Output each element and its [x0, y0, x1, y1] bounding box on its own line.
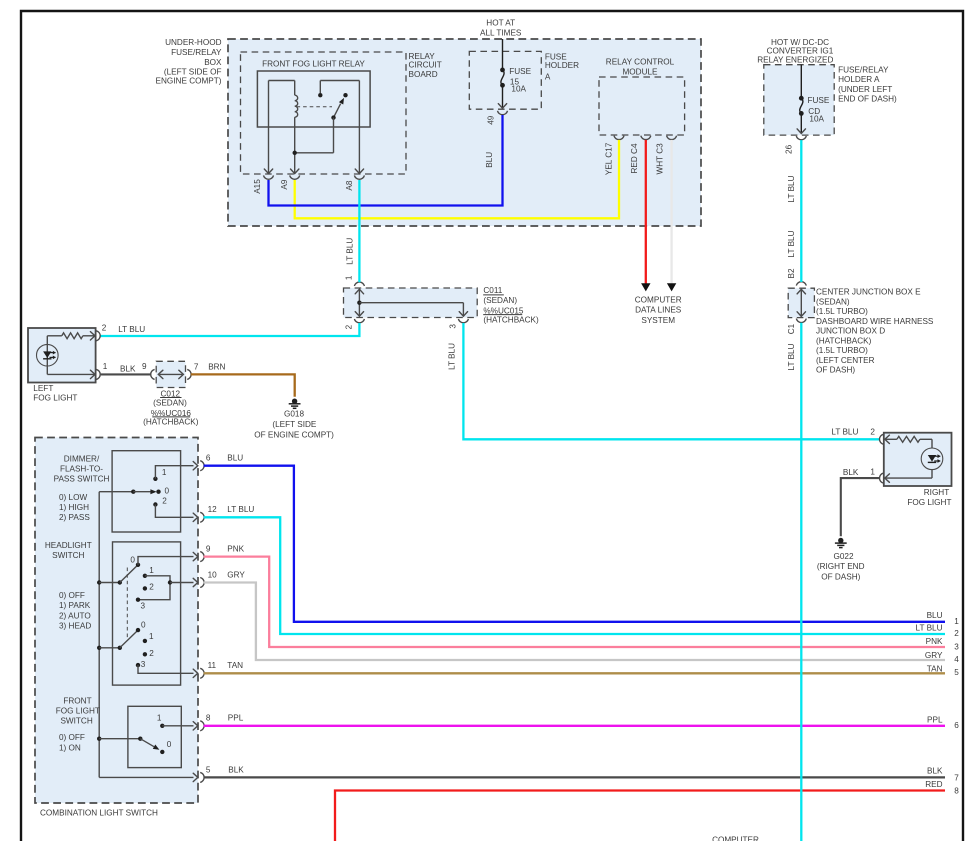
C012 internal double arrow — [160, 373, 183, 375]
svg-text:1: 1 — [954, 617, 959, 626]
svg-text:C012: C012 — [161, 389, 181, 398]
relay NO contact dot — [343, 93, 347, 97]
svg-text:JUNCTION BOX D: JUNCTION BOX D — [816, 327, 885, 336]
svg-text:BLK: BLK — [228, 765, 244, 774]
left fog light bulb — [37, 344, 59, 366]
bus to pin 5 — [99, 776, 193, 778]
svg-text:LT BLU: LT BLU — [118, 325, 145, 334]
svg-text:CIRCUIT: CIRCUIT — [409, 61, 442, 70]
wire WHT C3 data line — [670, 140, 672, 284]
svg-text:1) ON: 1) ON — [59, 743, 81, 752]
svg-text:LT BLU: LT BLU — [447, 343, 456, 370]
fuse/relay holder A box (right) — [764, 65, 834, 135]
right fog light resistor — [885, 435, 890, 443]
dimmer wiper arrow — [99, 491, 133, 493]
front fog light switch box — [128, 706, 181, 767]
wire LT BLU fuse CD to junction box — [800, 140, 802, 282]
relay coil — [294, 81, 296, 96]
switch pin 11 — [193, 669, 198, 677]
left fog light pin 2 arc — [96, 331, 100, 341]
svg-text:HEADLIGHT: HEADLIGHT — [45, 541, 92, 550]
svg-text:%%UC015: %%UC015 — [483, 306, 523, 315]
svg-text:2) AUTO: 2) AUTO — [59, 611, 91, 620]
wire YEL A9-C17 — [295, 140, 619, 218]
svg-text:BLK: BLK — [843, 468, 859, 477]
svg-text:(HATCHBACK): (HATCHBACK) — [483, 316, 539, 325]
arrow WHT data line — [667, 283, 676, 291]
svg-text:10A: 10A — [511, 84, 526, 93]
headlight deck2 wiper — [99, 647, 120, 649]
wire BRN to G018 — [191, 374, 295, 396]
left fog light bulb wire — [46, 336, 48, 375]
switch pin 12 — [193, 513, 198, 521]
wire LT BLU C011 pin2 to left fog light — [100, 323, 359, 336]
svg-text:BLK: BLK — [927, 766, 943, 775]
svg-text:(RIGHT END: (RIGHT END — [817, 562, 865, 571]
switch common bus — [98, 492, 100, 778]
right fog light bulb — [921, 448, 943, 470]
C011 pin 1 arc — [354, 282, 364, 286]
right fog light pin1 wire — [931, 470, 933, 479]
fuse holder A bottom pin 49 — [502, 87, 504, 108]
svg-text:WHT C3: WHT C3 — [656, 143, 665, 175]
wire GRY pin10 — [204, 583, 945, 661]
under-hood fuse/relay box — [228, 39, 701, 226]
svg-text:FUSE/RELAY: FUSE/RELAY — [171, 48, 222, 57]
svg-text:BOARD: BOARD — [409, 70, 438, 79]
svg-text:CENTER JUNCTION BOX E: CENTER JUNCTION BOX E — [816, 288, 921, 297]
svg-text:(UNDER LEFT: (UNDER LEFT — [838, 85, 892, 94]
svg-text:A8: A8 — [345, 180, 354, 190]
svg-text:8: 8 — [206, 714, 211, 723]
svg-text:OF DASH): OF DASH) — [816, 366, 855, 375]
svg-text:0: 0 — [130, 555, 135, 564]
fuse 15 10A symbol — [500, 68, 505, 73]
svg-text:FOG LIGHT: FOG LIGHT — [33, 393, 77, 402]
svg-text:FUSE/RELAY: FUSE/RELAY — [838, 66, 889, 75]
svg-text:11: 11 — [208, 661, 217, 670]
wire into fuse CD — [800, 65, 802, 97]
svg-text:(SEDAN): (SEDAN) — [483, 296, 517, 305]
svg-text:DASHBOARD WIRE HARNESS: DASHBOARD WIRE HARNESS — [816, 317, 934, 326]
module pin C3 — [667, 136, 677, 140]
connector C012 box — [156, 361, 185, 387]
svg-text:PNK: PNK — [227, 544, 244, 553]
svg-text:3: 3 — [141, 660, 146, 669]
svg-text:FLASH-TO-: FLASH-TO- — [60, 464, 103, 473]
svg-text:7: 7 — [954, 774, 959, 783]
wire BLU pin6 — [204, 466, 945, 622]
switch pin 10 — [193, 578, 198, 586]
svg-text:0) OFF: 0) OFF — [59, 591, 85, 600]
deck1 to pin 10 — [170, 582, 194, 584]
svg-text:DATA LINES: DATA LINES — [635, 306, 682, 315]
right fog light pin 1 arc — [879, 473, 883, 483]
svg-text:3) HEAD: 3) HEAD — [59, 621, 91, 630]
svg-text:OF ENGINE COMPT): OF ENGINE COMPT) — [254, 431, 334, 440]
svg-text:RED: RED — [925, 780, 942, 789]
C011 pin 2 arc — [354, 319, 364, 323]
svg-text:DIMMER/: DIMMER/ — [64, 454, 100, 463]
svg-text:GRY: GRY — [925, 651, 943, 660]
svg-text:COMPUTER: COMPUTER — [635, 295, 682, 304]
wire LT BLU pin12 — [204, 517, 945, 634]
svg-text:0: 0 — [165, 486, 170, 495]
svg-text:FUSE: FUSE — [808, 96, 830, 105]
fuse holder A box — [469, 51, 541, 109]
svg-text:9: 9 — [142, 362, 147, 371]
svg-text:RELAY: RELAY — [409, 52, 436, 61]
pin A8 — [355, 169, 363, 174]
svg-text:2: 2 — [344, 324, 353, 329]
svg-text:G018: G018 — [284, 410, 304, 419]
svg-text:6: 6 — [954, 721, 959, 730]
svg-text:(SEDAN): (SEDAN) — [153, 398, 187, 407]
svg-text:4: 4 — [954, 655, 959, 664]
C011 pin 3 arc — [458, 319, 468, 323]
svg-text:2) PASS: 2) PASS — [59, 513, 90, 522]
svg-text:RELAY CONTROL: RELAY CONTROL — [606, 57, 675, 66]
svg-text:7: 7 — [194, 363, 199, 372]
pin A15 — [264, 169, 272, 174]
svg-text:2: 2 — [102, 323, 107, 332]
svg-text:SWITCH: SWITCH — [52, 551, 84, 560]
svg-text:HOT W/ DC-DC: HOT W/ DC-DC — [771, 38, 829, 47]
deck1 contact 1 — [143, 574, 147, 578]
svg-text:LT BLU: LT BLU — [346, 238, 355, 265]
svg-text:PPL: PPL — [927, 715, 943, 724]
svg-text:0: 0 — [141, 621, 146, 630]
svg-text:0) OFF: 0) OFF — [59, 733, 85, 742]
wire from hot at all times — [502, 39, 504, 68]
dimmer contact 1 to pin 6 — [153, 477, 157, 481]
svg-text:6: 6 — [206, 454, 211, 463]
C011 internal wires — [358, 290, 360, 317]
svg-text:1: 1 — [149, 632, 154, 641]
svg-text:TAN: TAN — [227, 661, 243, 670]
deck1 contact 3 — [136, 598, 140, 602]
svg-text:2: 2 — [954, 629, 959, 638]
C012 left pin arc — [151, 369, 155, 379]
C012 right pin arc — [187, 369, 191, 379]
dimmer contact 0 — [156, 490, 160, 494]
svg-text:0) LOW: 0) LOW — [59, 493, 87, 502]
headlight deck1 wiper — [99, 582, 120, 584]
deck2 contact 0 — [136, 628, 140, 632]
fuse CD 10A symbol — [799, 96, 804, 101]
svg-text:BLK: BLK — [120, 364, 136, 373]
deck1 contact 0 — [136, 563, 140, 567]
svg-text:1: 1 — [870, 467, 875, 476]
wire BLK fog light to C012 — [101, 373, 152, 375]
deck1 contacts 1-3 link — [138, 576, 170, 600]
deck2 contact3 to pin 11 — [138, 665, 194, 673]
svg-text:5: 5 — [206, 765, 211, 774]
svg-text:HOLDER: HOLDER — [545, 61, 579, 70]
svg-text:2: 2 — [162, 497, 167, 506]
svg-text:UNDER-HOOD: UNDER-HOOD — [165, 38, 221, 47]
svg-text:8: 8 — [954, 787, 959, 796]
svg-text:(LEFT SIDE: (LEFT SIDE — [272, 420, 317, 429]
wire TAN pin11 — [204, 672, 945, 674]
svg-text:BLU: BLU — [227, 454, 243, 463]
svg-text:10A: 10A — [809, 115, 824, 124]
left fog light resistor — [47, 335, 62, 337]
svg-text:10: 10 — [208, 570, 218, 579]
svg-text:TAN: TAN — [927, 664, 943, 673]
svg-text:3: 3 — [449, 324, 458, 329]
svg-text:ENGINE COMPT): ENGINE COMPT) — [156, 77, 222, 86]
relay switch arm — [334, 104, 341, 118]
svg-text:1) PARK: 1) PARK — [59, 601, 91, 610]
svg-text:A: A — [545, 72, 551, 81]
svg-text:YEL C17: YEL C17 — [604, 142, 613, 175]
svg-text:49: 49 — [486, 115, 495, 125]
svg-text:LT BLU: LT BLU — [831, 427, 858, 436]
svg-text:1: 1 — [162, 468, 167, 477]
svg-text:2: 2 — [870, 427, 875, 436]
svg-text:5: 5 — [954, 668, 959, 677]
relay control module box — [599, 77, 685, 135]
switch pin 9 — [193, 552, 198, 560]
svg-text:(1.5L TURBO): (1.5L TURBO) — [816, 346, 868, 355]
svg-text:C1: C1 — [787, 323, 796, 334]
wire PPL pin8 — [204, 725, 945, 727]
switch pin 6 — [193, 462, 198, 470]
svg-text:1: 1 — [149, 566, 154, 575]
svg-text:3: 3 — [141, 601, 146, 610]
module pin C4 — [641, 136, 651, 140]
dimmer contact 2 to pin 12 — [153, 502, 157, 506]
svg-text:LT BLU: LT BLU — [916, 624, 943, 633]
svg-text:9: 9 — [206, 544, 211, 553]
relay actuation dashed link — [297, 106, 333, 108]
svg-text:FOG LIGHT: FOG LIGHT — [56, 706, 100, 715]
svg-text:1: 1 — [157, 713, 162, 722]
fog switch wiper arm — [140, 739, 154, 747]
wire LT BLU C011 pin3 to right fog light — [463, 323, 880, 439]
svg-text:BLU: BLU — [927, 611, 943, 620]
left fog light pin1 wire — [47, 373, 94, 375]
svg-text:B2: B2 — [787, 268, 796, 278]
dimmer switch box — [112, 451, 181, 532]
svg-text:G022: G022 — [833, 552, 853, 561]
left fog light box — [28, 328, 96, 383]
svg-text:FRONT: FRONT — [63, 696, 91, 705]
svg-text:1) HIGH: 1) HIGH — [59, 503, 89, 512]
svg-text:LT BLU: LT BLU — [227, 505, 254, 514]
junction box internal wire — [800, 290, 802, 316]
wire BLK to G022 — [841, 478, 880, 536]
svg-text:SWITCH: SWITCH — [60, 716, 92, 725]
wire RED C4 data line — [645, 140, 647, 284]
svg-text:26: 26 — [784, 144, 793, 154]
ground G018 — [292, 399, 297, 404]
svg-text:(LEFT CENTER: (LEFT CENTER — [816, 356, 875, 365]
svg-text:PNK: PNK — [926, 637, 943, 646]
deck2 contact 1 — [143, 639, 147, 643]
svg-text:0: 0 — [167, 740, 172, 749]
wire BLK pin5 — [204, 776, 945, 778]
svg-text:HOT AT: HOT AT — [486, 19, 515, 28]
wire LT BLU A8-C011 — [358, 180, 360, 282]
deck1 contact 2 — [143, 586, 147, 590]
svg-text:PASS SWITCH: PASS SWITCH — [54, 474, 110, 483]
mechanical link dashed — [126, 568, 128, 640]
wire to pin A8 — [358, 81, 360, 175]
combination light switch box — [35, 438, 198, 804]
svg-text:(SEDAN): (SEDAN) — [816, 297, 850, 306]
svg-text:HOLDER A: HOLDER A — [838, 75, 880, 84]
svg-text:12: 12 — [208, 505, 218, 514]
svg-text:BRN: BRN — [208, 363, 225, 372]
svg-text:END OF DASH): END OF DASH) — [838, 94, 897, 103]
svg-text:2: 2 — [149, 649, 154, 658]
relay circuit board box — [241, 52, 407, 174]
module pin C17 — [614, 136, 624, 140]
svg-text:(HATCHBACK): (HATCHBACK) — [816, 336, 872, 345]
svg-text:LT BLU: LT BLU — [787, 230, 796, 257]
junction box bottom pin C1 — [796, 319, 806, 323]
svg-text:C011: C011 — [483, 286, 502, 295]
svg-text:SYSTEM: SYSTEM — [641, 316, 675, 325]
svg-text:FRONT FOG LIGHT RELAY: FRONT FOG LIGHT RELAY — [262, 59, 365, 68]
svg-text:(LEFT SIDE OF: (LEFT SIDE OF — [164, 68, 222, 77]
svg-text:CONVERTER IG1: CONVERTER IG1 — [767, 47, 834, 56]
svg-text:1: 1 — [103, 362, 108, 371]
switch pin 8 — [193, 722, 198, 730]
deck1 contact0 to pin 9 — [138, 557, 194, 565]
wire BLU A15-fuse49 — [269, 115, 503, 206]
arrow RED data line — [641, 283, 650, 291]
svg-text:BLU: BLU — [485, 152, 494, 168]
svg-text:A9: A9 — [280, 179, 289, 189]
front fog light relay box — [257, 71, 370, 127]
fog switch common — [99, 738, 140, 740]
right fog light box — [884, 433, 952, 486]
svg-text:LEFT: LEFT — [33, 384, 53, 393]
wire A15 to coil top — [269, 80, 295, 82]
svg-text:COMBINATION LIGHT SWITCH: COMBINATION LIGHT SWITCH — [40, 808, 158, 817]
svg-text:MODULE: MODULE — [622, 67, 658, 76]
pin A9 — [291, 169, 299, 174]
relay fixed contact dot — [318, 93, 322, 97]
ground G022 — [838, 538, 843, 543]
svg-text:PPL: PPL — [228, 714, 244, 723]
deck2 contact 3 — [136, 663, 140, 667]
wire PNK pin9 — [204, 557, 945, 647]
svg-text:A15: A15 — [253, 179, 262, 194]
svg-text:LT BLU: LT BLU — [787, 343, 796, 370]
connector C011 box — [344, 288, 478, 318]
center junction box E — [788, 288, 814, 317]
svg-text:RIGHT: RIGHT — [924, 488, 949, 497]
svg-text:OF DASH): OF DASH) — [821, 572, 860, 581]
svg-text:3: 3 — [954, 642, 959, 651]
svg-text:ALL TIMES: ALL TIMES — [480, 28, 522, 37]
headlight switch box — [113, 542, 181, 685]
svg-text:2: 2 — [149, 583, 154, 592]
svg-text:LT BLU: LT BLU — [787, 175, 796, 202]
svg-text:(HATCHBACK): (HATCHBACK) — [143, 417, 199, 426]
fog contact 1 to pin 8 — [160, 724, 164, 728]
svg-text:FUSE: FUSE — [509, 67, 531, 76]
svg-text:COMPUTER: COMPUTER — [712, 835, 759, 841]
wire LT BLU junction box to bottom — [800, 323, 802, 841]
wire RED bottom — [335, 791, 945, 841]
deck2 contact 2 — [143, 652, 147, 656]
svg-text:RED C4: RED C4 — [630, 143, 639, 173]
fuse/relay holder bottom pin 26 — [800, 115, 802, 134]
svg-text:BOX: BOX — [204, 58, 222, 67]
fog contact 0 — [160, 750, 164, 754]
wire A8 contact branch — [320, 80, 359, 82]
junction box top pin B2 — [796, 282, 806, 286]
svg-text:1: 1 — [344, 275, 353, 280]
switch pin 5 — [193, 773, 198, 781]
left fog light pin 1 arc — [96, 369, 100, 379]
svg-text:RELAY ENERGIZED: RELAY ENERGIZED — [757, 56, 833, 65]
relay arm to A9 junction — [333, 118, 335, 153]
right fog light pin 2 arc — [879, 434, 883, 444]
svg-text:GRY: GRY — [227, 570, 245, 579]
svg-text:(1.5L TURBO): (1.5L TURBO) — [816, 307, 868, 316]
svg-text:FOG LIGHT: FOG LIGHT — [907, 498, 951, 507]
